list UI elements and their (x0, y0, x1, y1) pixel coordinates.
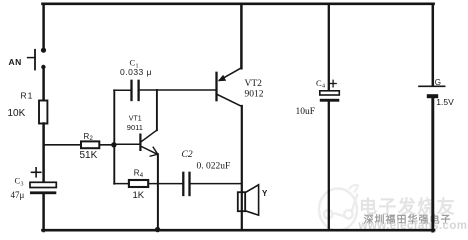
wire right edge bottom (431, 98, 434, 231)
capacitor C3 electrolytic 47u (11, 168, 57, 200)
svg-text:Y: Y (262, 189, 268, 198)
svg-text:4: 4 (322, 84, 325, 90)
wire C4 bottom (328, 102, 330, 230)
junction node emitter bottom (155, 227, 160, 232)
wire VT1 emitter vertical to bottom rail (157, 154, 159, 230)
svg-text:1.5V: 1.5V (436, 97, 454, 107)
capacitor C2 (182, 150, 231, 195)
svg-text:R1: R1 (21, 91, 34, 101)
svg-text:10K: 10K (8, 108, 26, 119)
wire C3 to bottom rail (42, 194, 45, 231)
svg-text:1K: 1K (133, 190, 145, 201)
wire junction to VT1 base (114, 143, 140, 145)
svg-text:9012: 9012 (245, 90, 264, 100)
speaker Y (238, 185, 268, 215)
svg-text:10uF: 10uF (296, 107, 316, 117)
capacitor C1 (114, 58, 152, 101)
wire C1 to VT2 base (140, 89, 216, 91)
transistor VT2 (217, 68, 264, 107)
wire left edge to switch (42, 4, 45, 49)
wire switch to R1 (42, 67, 45, 101)
transistor VT1 (127, 116, 158, 157)
svg-text:AN: AN (9, 57, 22, 67)
wire VT1 collector vertical (156, 90, 158, 130)
capacitor C4 (296, 78, 340, 117)
svg-text:9011: 9011 (127, 123, 143, 132)
watermark (decorative) (319, 185, 358, 231)
wire right edge top (432, 4, 435, 86)
junction node base divider (111, 142, 116, 147)
battery G (419, 78, 454, 107)
resistor R2 (44, 132, 114, 161)
svg-text:C2: C2 (182, 150, 193, 160)
wire R4 C2 horizontal (114, 183, 130, 185)
svg-text:51K: 51K (80, 150, 98, 161)
svg-text:47μ: 47μ (11, 190, 25, 200)
resistor R1 (8, 91, 48, 124)
wire VT2 collector vertical to bottom rail (241, 106, 243, 230)
wire top rail (43, 2, 434, 5)
svg-text:VT2: VT2 (245, 79, 263, 89)
switch AN (9, 48, 47, 70)
wire C4 top (328, 4, 330, 91)
resistor R4 (129, 169, 148, 201)
wire left vertical C1 to R4 (113, 90, 115, 183)
svg-text:0. 022uF: 0. 022uF (197, 162, 231, 172)
svg-text:VT1: VT1 (129, 116, 142, 123)
wire bottom rail (43, 229, 435, 232)
wire R4 to C2 (148, 183, 182, 185)
svg-text:3: 3 (21, 182, 24, 188)
wire VT2 emitter to top rail (240, 4, 243, 68)
svg-text:0.033 μ: 0.033 μ (120, 67, 152, 77)
wire C2 to speaker line (191, 183, 242, 185)
svg-text:G: G (435, 78, 441, 87)
wire R1 to capacitor C3 (42, 124, 45, 183)
